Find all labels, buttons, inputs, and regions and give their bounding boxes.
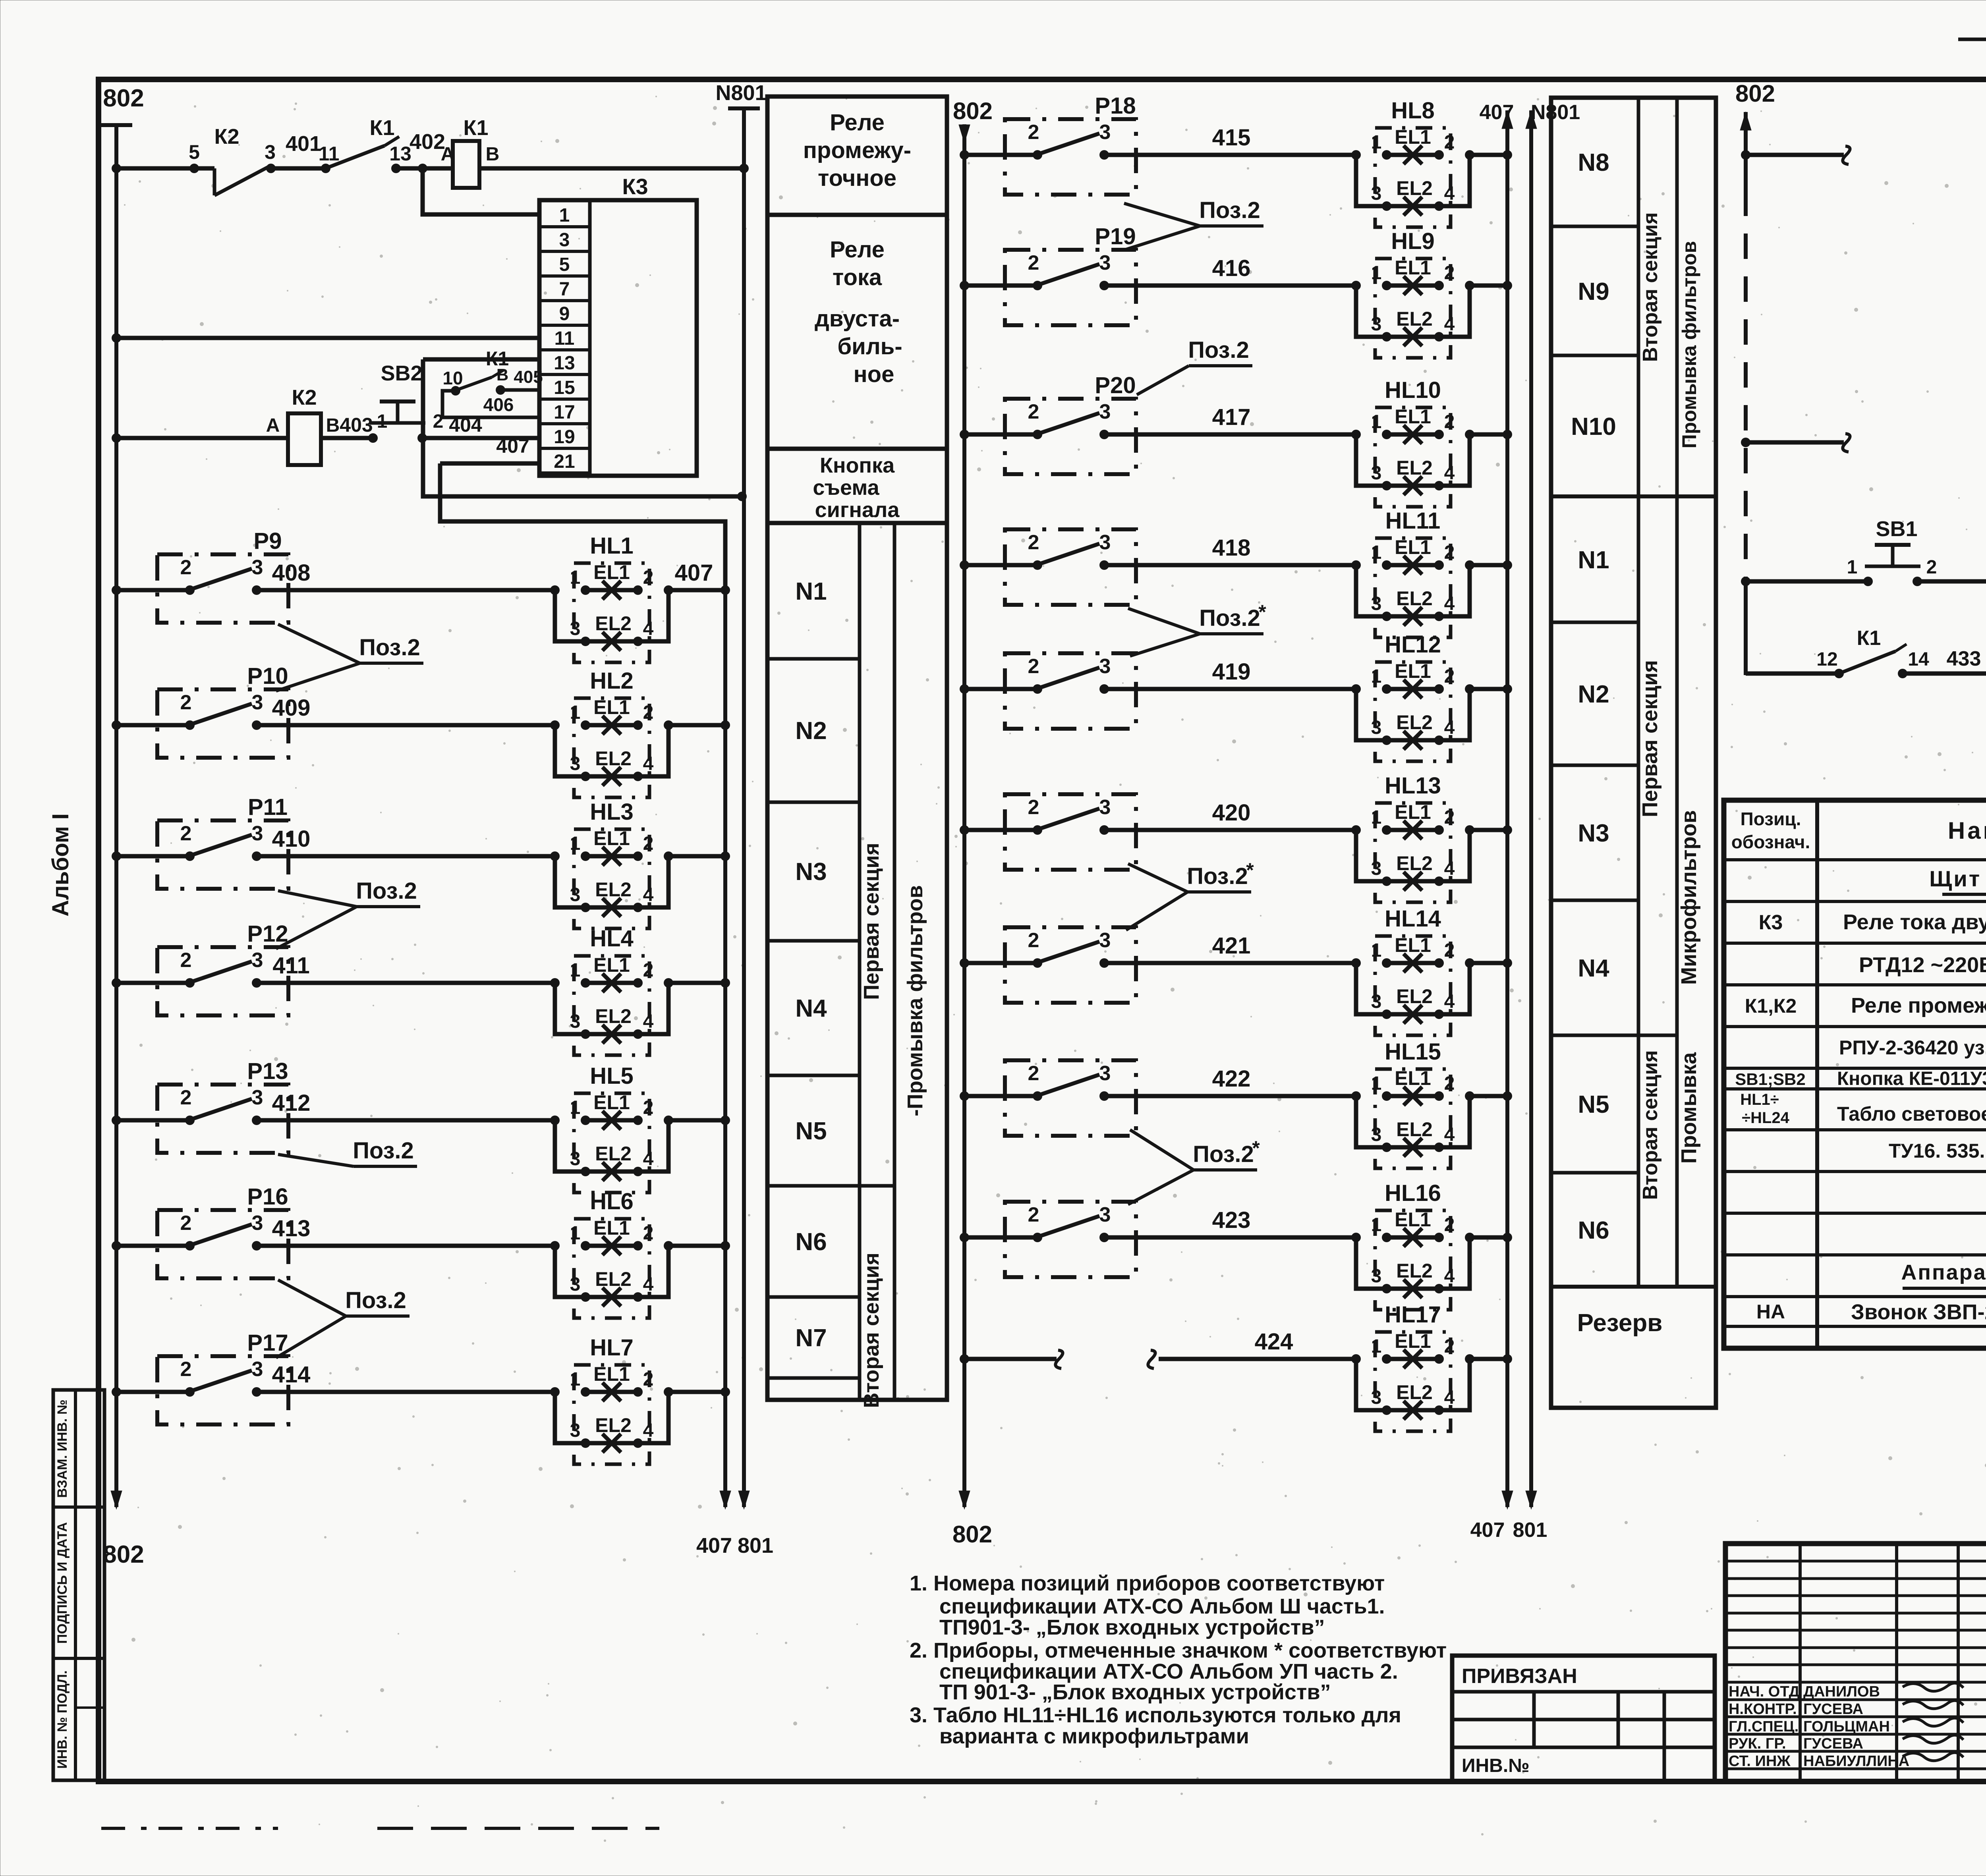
svg-text:1: 1: [1371, 1214, 1382, 1235]
relay contact switch unnamed (dashed box): [1005, 529, 1136, 605]
svg-text:414: 414: [272, 1362, 311, 1388]
svg-text:4: 4: [1444, 593, 1455, 614]
svg-text:2: 2: [643, 1223, 654, 1244]
svg-text:421: 421: [1212, 933, 1251, 959]
svg-text:2: 2: [180, 1212, 192, 1235]
svg-text:17: 17: [554, 402, 575, 423]
pushbutton SB2: [368, 361, 427, 443]
svg-text:4: 4: [643, 884, 654, 905]
svg-text:РПУ-2-36420 уз. ~220В. ТУ16.52: РПУ-2-36420 уз. ~220В. ТУ16.523.331-78: [1839, 1036, 1986, 1059]
svg-text:Альбом I: Альбом I: [48, 813, 73, 917]
svg-text:HL5: HL5: [590, 1063, 634, 1089]
svg-text:РУК. ГР.: РУК. ГР.: [1729, 1735, 1786, 1752]
svg-text:HL13: HL13: [1385, 773, 1441, 799]
svg-text:EL2: EL2: [595, 1143, 632, 1165]
svg-text:417: 417: [1212, 404, 1251, 430]
position note Поз.2* with leader lines: [1128, 1130, 1260, 1204]
svg-text:15: 15: [554, 377, 575, 398]
svg-text:1: 1: [1371, 807, 1382, 828]
svg-text:HL2: HL2: [590, 668, 634, 694]
svg-text:EL1: EL1: [593, 1217, 630, 1239]
bus N801 (left pair): [715, 81, 773, 1558]
svg-text:401: 401: [286, 132, 321, 156]
wire row 403-404: [112, 433, 539, 443]
svg-text:ГЛ.СПЕЦ.: ГЛ.СПЕЦ.: [1729, 1718, 1799, 1735]
svg-text:1: 1: [1371, 1336, 1382, 1357]
node junction bus 407 row 417: [1503, 430, 1512, 439]
svg-text:2: 2: [180, 822, 192, 845]
svg-text:802: 802: [103, 1541, 144, 1568]
svg-text:3: 3: [252, 691, 263, 714]
svg-text:Кнопка КЕ-011У3 исп.2 ТУ16 5: Кнопка КЕ-011У3 исп.2 ТУ16 526.407-79: [1837, 1068, 1986, 1089]
wire 431 row: [1741, 407, 1986, 452]
svg-text:802: 802: [953, 98, 993, 124]
svg-text:1: 1: [1371, 262, 1382, 284]
svg-text:2: 2: [1444, 940, 1455, 961]
wire 414 row: [112, 1362, 555, 1397]
relay coil K2: [266, 386, 388, 465]
svg-text:4: 4: [1444, 314, 1455, 335]
svg-text:EL2: EL2: [595, 1005, 632, 1027]
svg-text:402: 402: [410, 130, 445, 154]
svg-text:Позиц.: Позиц.: [1741, 809, 1801, 829]
svg-text:Поз.2: Поз.2: [345, 1287, 406, 1313]
relay contact switch P19 (dashed box): [1005, 224, 1136, 325]
contact K1 (11-13) NO: [319, 116, 445, 173]
lamp HL5 (light box EL1/EL2): [550, 1063, 725, 1193]
svg-text:РТД12 ~220В: РТД12 ~220В: [1859, 953, 1986, 977]
relay contact switch unnamed (dashed box): [1005, 927, 1136, 1003]
svg-text:Реле: Реле: [830, 110, 885, 135]
svg-text:НАБИУЛЛИНА: НАБИУЛЛИНА: [1803, 1753, 1909, 1770]
svg-text:2: 2: [1444, 807, 1455, 828]
svg-text:N3: N3: [1578, 820, 1609, 847]
svg-text:EL2: EL2: [595, 747, 632, 770]
svg-text:Наименование: Наименование: [1948, 817, 1986, 844]
svg-text:N6: N6: [1578, 1217, 1609, 1244]
svg-text:3: 3: [1371, 1124, 1382, 1145]
contact K2 (5-3) NC with step: [189, 125, 321, 195]
svg-text:407: 407: [675, 560, 713, 586]
svg-text:HL8: HL8: [1391, 98, 1435, 124]
position note Поз.2 with leader lines: [276, 878, 420, 949]
svg-text:3: 3: [1099, 400, 1111, 423]
svg-text:EL2: EL2: [1396, 457, 1433, 479]
wire 417 row: [960, 404, 1356, 439]
svg-text:410: 410: [272, 826, 311, 852]
svg-text:2: 2: [1028, 400, 1039, 423]
svg-text:420: 420: [1212, 800, 1251, 826]
svg-text:Промывка: Промывка: [1677, 1052, 1701, 1164]
svg-text:EL1: EL1: [593, 696, 630, 718]
lamp HL10 (light box EL1/EL2): [1351, 377, 1507, 507]
svg-text:HL9: HL9: [1391, 228, 1435, 254]
svg-text:НА: НА: [1756, 1301, 1785, 1323]
svg-text:2: 2: [1444, 1073, 1455, 1094]
svg-text:3: 3: [559, 230, 570, 251]
svg-text:2: 2: [643, 1097, 654, 1118]
lamp HL14 (light box EL1/EL2): [1351, 906, 1507, 1035]
svg-text:SB1: SB1: [1876, 517, 1917, 541]
svg-text:2: 2: [1028, 1062, 1039, 1085]
svg-text:EL2: EL2: [1396, 711, 1433, 733]
svg-text:EL2: EL2: [595, 1414, 632, 1436]
svg-text:411: 411: [272, 953, 310, 979]
svg-text:3: 3: [1099, 531, 1111, 554]
svg-text:2: 2: [1028, 655, 1039, 678]
svg-text:3. Табло HL11÷HL16 использую: 3. Табло HL11÷HL16 используются только д…: [910, 1703, 1401, 1727]
svg-text:3: 3: [252, 1212, 263, 1235]
svg-text:2: 2: [1444, 1336, 1455, 1357]
svg-text:*: *: [1252, 1137, 1260, 1159]
svg-text:2: 2: [1028, 796, 1039, 819]
svg-text:HL6: HL6: [590, 1189, 634, 1214]
svg-text:21: 21: [554, 451, 575, 472]
relay contact switch P11 (dashed box): [157, 794, 288, 889]
svg-text:3: 3: [1099, 251, 1111, 274]
node junction bus 407 row 414: [721, 1387, 730, 1397]
svg-text:N1: N1: [795, 578, 827, 605]
node junction bus 407 row 421: [1503, 958, 1512, 968]
svg-text:EL2: EL2: [1396, 852, 1433, 874]
svg-text:HL11: HL11: [1385, 508, 1441, 534]
node junction bus 407 row 412: [721, 1116, 730, 1125]
svg-text:N1: N1: [1578, 546, 1609, 574]
svg-text:801: 801: [1513, 1519, 1547, 1542]
left margin label Альбом I: [48, 813, 73, 917]
svg-text:3: 3: [1371, 1266, 1382, 1287]
lamp HL13 (light box EL1/EL2): [1351, 773, 1507, 902]
svg-text:P12: P12: [247, 921, 288, 947]
svg-text:2: 2: [1444, 1214, 1455, 1235]
svg-text:Промывка фильтров: Промывка фильтров: [1678, 241, 1700, 448]
svg-text:ГУСЕВА: ГУСЕВА: [1803, 1735, 1863, 1752]
svg-text:1: 1: [1371, 411, 1382, 432]
svg-text:Поз.2: Поз.2: [1199, 197, 1260, 223]
svg-text:К3: К3: [622, 174, 648, 199]
svg-text:3: 3: [570, 1148, 581, 1170]
svg-text:13: 13: [389, 143, 411, 165]
wire 416 row: [960, 255, 1356, 290]
svg-text:7: 7: [559, 279, 570, 300]
svg-text:ИНВ. № ПОДЛ.: ИНВ. № ПОДЛ.: [55, 1670, 70, 1769]
svg-text:HL15: HL15: [1385, 1039, 1441, 1065]
lamp HL8 (light box EL1/EL2): [1351, 98, 1507, 227]
svg-text:спецификации АТХ-СО Альбом: спецификации АТХ-СО Альбом УП часть 2.: [939, 1660, 1398, 1683]
bus 802 left supply: [100, 85, 144, 1568]
svg-text:EL1: EL1: [1395, 1067, 1431, 1089]
wire 419 row: [960, 659, 1356, 694]
lamp HL1 (light box EL1/EL2): [550, 533, 725, 662]
wire 407 from terminal 21 to lamp bus: [440, 435, 725, 590]
svg-text:3: 3: [570, 1420, 581, 1441]
svg-text:3: 3: [252, 1086, 263, 1109]
svg-text:EL2: EL2: [1396, 985, 1433, 1007]
svg-text:412: 412: [272, 1090, 311, 1116]
position note Поз.2* with leader lines: [1128, 601, 1266, 656]
svg-text:-Промывка фильтров: -Промывка фильтров: [903, 885, 927, 1116]
svg-text:4: 4: [643, 1274, 654, 1295]
bus 802 right supply: [1735, 80, 1775, 675]
svg-text:3: 3: [1099, 121, 1111, 144]
svg-text:К1: К1: [464, 116, 489, 140]
component list table: [1724, 800, 1986, 1348]
svg-text:ПОДПИСЬ И ДАТА: ПОДПИСЬ И ДАТА: [55, 1522, 70, 1644]
svg-text:N6: N6: [795, 1228, 827, 1256]
svg-text:4: 4: [643, 1148, 654, 1170]
bracket wire from terminal 13 down to long 801 feed: [423, 359, 747, 501]
relay contact switch P9 (dashed box): [157, 528, 288, 623]
svg-text:EL2: EL2: [1396, 308, 1433, 330]
svg-text:Аппаратура по месту: Аппаратура по месту: [1901, 1260, 1986, 1284]
svg-text:2: 2: [643, 960, 654, 981]
svg-text:2: 2: [1028, 1203, 1039, 1226]
svg-text:EL1: EL1: [593, 827, 630, 849]
svg-text:N801: N801: [1531, 101, 1580, 124]
lamp HL11 (light box EL1/EL2): [1351, 508, 1507, 637]
svg-text:Поз.2: Поз.2: [1187, 863, 1248, 889]
svg-text:Резерв: Резерв: [1577, 1309, 1663, 1337]
svg-text:EL2: EL2: [1396, 1381, 1433, 1403]
svg-text:2: 2: [1028, 251, 1039, 274]
svg-text:HL3: HL3: [590, 799, 634, 825]
top band with sheet number 46: [1958, 39, 1986, 79]
terminal block K3 (terminals 1..21): [539, 174, 697, 476]
position note Поз.2 with leader lines: [278, 1138, 417, 1166]
svg-text:423: 423: [1212, 1207, 1251, 1233]
svg-text:2: 2: [1444, 132, 1455, 153]
svg-text:EL1: EL1: [1395, 1208, 1431, 1231]
svg-text:14: 14: [1908, 649, 1929, 670]
wire row to K3 terminal 11: [112, 333, 539, 343]
svg-text:Первая секция: Первая секция: [1638, 660, 1662, 817]
svg-text:Поз.2: Поз.2: [359, 635, 420, 660]
svg-text:HL16: HL16: [1385, 1180, 1441, 1206]
node junction bus 407 row 411: [721, 978, 730, 988]
svg-text:419: 419: [1212, 659, 1251, 685]
svg-text:1: 1: [570, 1223, 581, 1244]
svg-text:К2: К2: [214, 125, 240, 149]
lamp HL6 (light box EL1/EL2): [550, 1189, 725, 1318]
relay coil K1: [441, 116, 500, 188]
svg-text:N801: N801: [715, 81, 767, 105]
wire 423 row: [960, 1207, 1356, 1242]
svg-text:EL2: EL2: [595, 1268, 632, 1290]
svg-text:К1: К1: [1857, 627, 1881, 650]
wire 411 row: [112, 953, 555, 988]
svg-text:4: 4: [1444, 1266, 1455, 1287]
svg-text:P13: P13: [247, 1058, 288, 1084]
svg-text:спецификации АТХ-СО Альбом: спецификации АТХ-СО Альбом Ш часть1.: [939, 1594, 1385, 1618]
svg-text:EL1: EL1: [1395, 126, 1431, 148]
svg-text:1: 1: [570, 1097, 581, 1118]
svg-text:1: 1: [1371, 666, 1382, 687]
svg-text:1: 1: [1847, 557, 1858, 578]
svg-text:1: 1: [559, 205, 570, 226]
svg-text:Табло световое ТСБ-Ш-У3-01: Табло световое ТСБ-Ш-У3-01: [1837, 1103, 1986, 1125]
svg-text:Вторая секция: Вторая секция: [1639, 212, 1662, 362]
svg-text:К3: К3: [1759, 911, 1783, 934]
legend box: Реле тока двустабильное: [767, 215, 947, 449]
bus 407 (right pair): [1470, 101, 1514, 1542]
svg-text:9: 9: [559, 303, 570, 324]
svg-text:2: 2: [1444, 542, 1455, 563]
svg-text:СТ. ИНЖ: СТ. ИНЖ: [1729, 1753, 1791, 1770]
lamp HL9 (light box EL1/EL2): [1351, 228, 1507, 358]
svg-text:N5: N5: [795, 1117, 827, 1145]
relay contact switch unnamed (dashed box): [1005, 794, 1136, 870]
relay contact switch P10 (dashed box): [157, 663, 288, 758]
wire 420 row: [960, 800, 1356, 835]
svg-text:2: 2: [1444, 262, 1455, 284]
wire 408 row: [112, 560, 713, 595]
position note Поз.2 with leader lines: [1124, 197, 1263, 249]
bus 407 (left pair): [696, 590, 732, 1558]
node junction bus 407 row 409: [721, 720, 730, 730]
node junction bus 407 row 408: [721, 585, 730, 595]
node junction bus 407 row 422: [1503, 1091, 1512, 1101]
svg-text:3: 3: [1371, 183, 1382, 204]
wire 418 row: [960, 535, 1356, 570]
svg-text:HL17: HL17: [1385, 1302, 1441, 1328]
svg-text:EL1: EL1: [593, 1363, 630, 1385]
svg-text:407: 407: [1470, 1519, 1505, 1542]
svg-text:1: 1: [1371, 940, 1382, 961]
svg-text:EL2: EL2: [1396, 177, 1433, 199]
labels 2 404 after SB2: [433, 411, 482, 436]
svg-text:408: 408: [272, 560, 311, 586]
wire 413 row: [112, 1216, 555, 1251]
svg-text:3: 3: [252, 556, 263, 579]
svg-text:EL1: EL1: [1395, 801, 1431, 823]
svg-text:HL7: HL7: [590, 1335, 634, 1361]
svg-text:Поз.2: Поз.2: [356, 878, 417, 904]
svg-text:HL1÷: HL1÷: [1740, 1091, 1779, 1108]
svg-text:403: 403: [340, 414, 373, 436]
node junction bus 407 row 416: [1503, 281, 1512, 290]
svg-text:N2: N2: [1578, 681, 1609, 708]
svg-text:3: 3: [1099, 929, 1111, 952]
position note Поз.2 with leader lines: [276, 624, 423, 691]
svg-text:3: 3: [1371, 717, 1382, 738]
svg-text:3: 3: [570, 618, 581, 639]
svg-text:÷HL24: ÷HL24: [1742, 1109, 1790, 1127]
bus N801 (right pair): [1513, 101, 1580, 1542]
svg-text:2: 2: [180, 691, 192, 714]
svg-text:EL2: EL2: [1396, 1260, 1433, 1282]
svg-text:4: 4: [643, 753, 654, 774]
lamp HL17 (light box EL1/EL2): [1351, 1302, 1507, 1431]
svg-text:3: 3: [265, 141, 276, 163]
svg-text:К2: К2: [292, 386, 317, 409]
svg-text:EL2: EL2: [595, 612, 632, 635]
wire row 401-402 (top): [112, 164, 749, 173]
svg-text:К1,К2: К1,К2: [1745, 995, 1797, 1017]
svg-text:ИНВ.№: ИНВ.№: [1462, 1755, 1530, 1776]
svg-text:ВЗАМ. ИНВ. №: ВЗАМ. ИНВ. №: [55, 1399, 70, 1498]
relay contact switch unnamed (dashed box): [1005, 1202, 1136, 1277]
svg-text:3: 3: [570, 1011, 581, 1032]
svg-text:1: 1: [570, 702, 581, 723]
lamp HL2 (light box EL1/EL2): [550, 668, 725, 797]
svg-text:Щит оператора ЩО: Щит оператора ЩО: [1929, 866, 1986, 891]
svg-text:3: 3: [252, 949, 263, 972]
svg-text:EL2: EL2: [595, 878, 632, 901]
svg-text:1: 1: [1371, 132, 1382, 153]
svg-text:ТП901-3- „: ТП901-3- „Блок входных устройств”: [939, 1615, 1325, 1639]
svg-text:2: 2: [180, 556, 192, 579]
svg-text:SB1;SB2: SB1;SB2: [1735, 1070, 1805, 1089]
wire 432 row with button SB1: [1741, 557, 1868, 586]
svg-text:4: 4: [1444, 858, 1455, 879]
svg-text:Н.КОНТР.: Н.КОНТР.: [1729, 1701, 1797, 1718]
svg-text:2: 2: [643, 833, 654, 854]
svg-text:415: 415: [1212, 125, 1251, 151]
relay contact switch P17 (dashed box): [157, 1330, 288, 1424]
svg-text:3: 3: [1371, 991, 1382, 1012]
svg-text:Поз.2: Поз.2: [353, 1138, 414, 1164]
svg-text:биль-: биль-: [837, 334, 902, 359]
node junction bus 407 row 419: [1503, 684, 1512, 694]
svg-text:5: 5: [189, 141, 200, 163]
svg-text:EL2: EL2: [1396, 587, 1433, 610]
svg-text:N5: N5: [1578, 1091, 1609, 1118]
node junction bus 407 row 410: [721, 851, 730, 861]
node junction bus 407 row 413: [721, 1241, 730, 1251]
svg-text:11: 11: [319, 143, 340, 165]
svg-text:1: 1: [570, 1369, 581, 1390]
svg-text:EL1: EL1: [1395, 257, 1431, 279]
wire 421 row: [960, 933, 1356, 968]
bottom dashed separator marks: [101, 1827, 659, 1830]
wire 410 row: [112, 826, 555, 861]
wire 425 row: [1741, 120, 1986, 164]
wire 415 row: [960, 125, 1356, 160]
svg-text:13: 13: [554, 353, 575, 374]
position note Поз.2 with leader lines: [276, 1280, 410, 1358]
svg-text:3: 3: [1099, 655, 1111, 678]
left margin stamp boxes (ИНВ/ПОДПИСЬ/ВЗАМ): [53, 1390, 104, 1780]
svg-text:2: 2: [1028, 929, 1039, 952]
svg-text:2: 2: [1444, 411, 1455, 432]
svg-text:тока: тока: [833, 264, 882, 290]
svg-text:HL1: HL1: [590, 533, 634, 559]
svg-text:19: 19: [554, 427, 575, 448]
svg-text:5: 5: [559, 254, 570, 275]
lamp HL15 (light box EL1/EL2): [1351, 1039, 1507, 1168]
svg-text:EL1: EL1: [593, 1091, 630, 1114]
svg-text:P20: P20: [1095, 372, 1136, 398]
svg-text:3: 3: [1371, 593, 1382, 614]
svg-text:ное: ное: [854, 361, 894, 387]
svg-text:422: 422: [1212, 1066, 1251, 1092]
svg-text:407: 407: [496, 435, 529, 457]
svg-text:416: 416: [1212, 255, 1251, 281]
svg-text:4: 4: [643, 1011, 654, 1032]
svg-text:EL1: EL1: [593, 954, 630, 976]
svg-text:двуста-: двуста-: [815, 306, 900, 332]
svg-text:ГОЛЬЦМАН: ГОЛЬЦМАН: [1803, 1718, 1890, 1735]
svg-text:1: 1: [570, 833, 581, 854]
svg-text:ТУ16. 535. 424-79: ТУ16. 535. 424-79: [1889, 1140, 1986, 1162]
svg-text:HL14: HL14: [1385, 906, 1441, 932]
svg-text:EL1: EL1: [1395, 536, 1431, 558]
svg-text:802: 802: [103, 85, 144, 112]
node junction bus 407 row 420: [1503, 825, 1512, 835]
wire 409 row: [112, 695, 555, 730]
svg-text:2: 2: [1444, 666, 1455, 687]
svg-text:P19: P19: [1095, 224, 1136, 249]
